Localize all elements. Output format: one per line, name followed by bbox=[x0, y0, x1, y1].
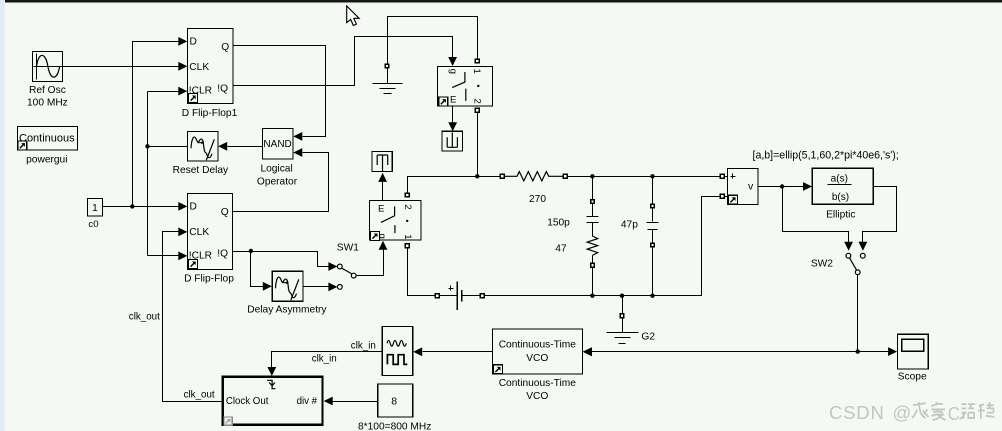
svg-text:270: 270 bbox=[529, 194, 546, 205]
Continuous-Time VCO block bbox=[493, 329, 583, 374]
svg-text:NAND: NAND bbox=[263, 139, 291, 150]
svg-text:[a,b]=ellip(5,1,60,2*pi*40e6,': [a,b]=ellip(5,1,60,2*pi*40e6,'s'); bbox=[753, 150, 899, 162]
label G2 bbox=[641, 332, 655, 343]
svg-text:Q: Q bbox=[221, 207, 229, 218]
svg-text:8*100=800 MHz: 8*100=800 MHz bbox=[358, 421, 431, 431]
svg-text:CLK: CLK bbox=[189, 227, 209, 238]
node V+ port square bbox=[720, 174, 727, 178]
svg-text:clk_in: clk_in bbox=[351, 340, 376, 351]
VCO pulse display block bbox=[382, 327, 413, 376]
top window border bbox=[5, 0, 1002, 3]
label clk_in lower bbox=[312, 354, 337, 365]
svg-text:D: D bbox=[190, 36, 197, 47]
wire VCO out to pulse display bbox=[413, 347, 492, 356]
label SW1 bbox=[337, 242, 359, 253]
Clock Out block bbox=[223, 377, 323, 425]
svg-text:D: D bbox=[190, 201, 197, 212]
top rail wire bbox=[408, 174, 721, 193]
svg-text:1: 1 bbox=[402, 234, 413, 239]
svg-text:v: v bbox=[748, 181, 754, 193]
svg-text:Delay Asymmetry: Delay Asymmetry bbox=[247, 305, 327, 316]
wire Reset Delay out to FF1 !CLR and FF2 !CLR bbox=[145, 87, 187, 261]
ground (top) bbox=[373, 64, 403, 93]
svg-text:1: 1 bbox=[92, 203, 98, 214]
svg-text:c0: c0 bbox=[88, 219, 98, 230]
label Reset Delay bbox=[173, 165, 229, 176]
resistor 47 bbox=[587, 236, 598, 296]
wire constant 8 to div input bbox=[324, 397, 378, 406]
wire SW2 out to VCO and Scope bbox=[583, 275, 897, 357]
node V- port square bbox=[720, 194, 727, 198]
svg-text:VCO: VCO bbox=[526, 391, 548, 402]
svg-text:Q: Q bbox=[221, 42, 229, 53]
wire NAND out to Reset Delay bbox=[218, 142, 262, 151]
svg-text:2: 2 bbox=[472, 98, 483, 103]
bottom rail wire bbox=[408, 197, 721, 298]
label 47p bbox=[621, 219, 638, 230]
wire Elliptic out to SW2 input2 bbox=[859, 187, 897, 251]
wire ground to breaker port 1 bbox=[388, 17, 478, 65]
annotation ellip command bbox=[753, 150, 899, 162]
wire VCO in from SW2 rail bbox=[583, 347, 592, 356]
sine source Ref Osc bbox=[33, 52, 63, 82]
svg-text:100 MHz: 100 MHz bbox=[27, 98, 68, 109]
svg-text:E: E bbox=[450, 94, 456, 105]
Delay Asymmetry block bbox=[272, 271, 303, 301]
label c0 bbox=[88, 219, 98, 230]
svg-text:VCO: VCO bbox=[526, 353, 548, 364]
svg-text:clk_out: clk_out bbox=[184, 390, 215, 401]
node SW1 port2 square bbox=[405, 193, 409, 197]
svg-text:CLK: CLK bbox=[189, 62, 209, 73]
label powergui bbox=[26, 155, 67, 166]
svg-text:D Flip-Flop: D Flip-Flop bbox=[184, 274, 234, 285]
wire SW1 E to pulse display bbox=[378, 173, 387, 201]
svg-text:150p: 150p bbox=[547, 218, 570, 229]
svg-text:b(s): b(s) bbox=[832, 192, 849, 203]
svg-text:a(s): a(s) bbox=[831, 174, 848, 185]
D Flip-Flop1 block U1 bbox=[188, 29, 234, 104]
D Flip-Flop block U2 bbox=[188, 194, 233, 270]
svg-text:1: 1 bbox=[471, 69, 482, 74]
wire constant to FF2 D and FF1 D bbox=[103, 37, 188, 211]
label 8*100=800 MHz bbox=[358, 421, 431, 431]
label Continuous-Time VCO bbox=[499, 378, 577, 402]
battery DC source bbox=[435, 282, 484, 310]
pulse display block (SW1) bbox=[372, 152, 392, 172]
label 150p bbox=[547, 218, 570, 229]
wire clk_out from Clock Out to FF2 CLK bbox=[163, 228, 223, 402]
label D Flip-Flop1 bbox=[182, 108, 238, 119]
svg-text:Continuous: Continuous bbox=[19, 133, 75, 145]
svg-text:C: C bbox=[948, 403, 960, 424]
svg-text:g: g bbox=[448, 69, 459, 74]
resistor 270 bbox=[500, 172, 567, 181]
svg-text:Ref Osc: Ref Osc bbox=[29, 85, 66, 96]
manual switch SW2 bbox=[846, 253, 865, 274]
left window strip bbox=[0, 0, 5, 431]
label Scope bbox=[898, 372, 927, 383]
wire v out branch to SW2 input1 bbox=[783, 187, 854, 251]
svg-text:E: E bbox=[378, 204, 384, 215]
label 270 bbox=[529, 194, 546, 205]
svg-text:Clock Out: Clock Out bbox=[226, 396, 269, 407]
label 47 bbox=[555, 244, 567, 255]
NAND Logical Operator block bbox=[263, 129, 294, 160]
svg-text:SW2: SW2 bbox=[811, 258, 833, 269]
wire Ref Osc to FF1 CLK bbox=[63, 62, 188, 71]
powergui block bbox=[18, 127, 78, 151]
breaker switch (top) bbox=[438, 67, 493, 107]
svg-text:!Q: !Q bbox=[217, 248, 228, 259]
svg-text:47p: 47p bbox=[621, 219, 638, 230]
manual switch (SW1 select) bbox=[337, 264, 356, 289]
svg-text:G2: G2 bbox=[641, 332, 655, 343]
svg-text:Scope: Scope bbox=[898, 372, 927, 383]
wire breaker port2 to top rail bbox=[475, 108, 479, 176]
svg-text:D Flip-Flop1: D Flip-Flop1 bbox=[182, 108, 238, 119]
watermark hanzi bbox=[912, 402, 994, 424]
svg-text:CSDN: CSDN bbox=[829, 402, 885, 423]
svg-text:@: @ bbox=[893, 402, 912, 423]
label Elliptic bbox=[826, 210, 855, 221]
svg-text:clk_out: clk_out bbox=[129, 312, 160, 323]
pulse display block (top) bbox=[442, 131, 463, 151]
svg-text:Continuous-Time: Continuous-Time bbox=[499, 340, 577, 351]
svg-text:clk_in: clk_in bbox=[312, 354, 337, 365]
wire FF1 Q to NAND in1 bbox=[234, 46, 326, 141]
constant c0 bbox=[88, 199, 103, 217]
breaker switch SW1 bbox=[370, 201, 422, 241]
wire FF1 !Q to breaker gate bbox=[234, 37, 458, 86]
node breaker port1 square bbox=[475, 59, 479, 63]
label clk_in upper bbox=[351, 340, 376, 351]
svg-text:Operator: Operator bbox=[257, 177, 298, 188]
svg-text:Continuous-Time: Continuous-Time bbox=[499, 378, 577, 389]
wire pulse display out to Clock Out trigger bbox=[267, 352, 382, 377]
svg-text:2: 2 bbox=[402, 204, 413, 209]
voltage measurement block bbox=[728, 169, 759, 205]
label D Flip-Flop bbox=[184, 274, 234, 285]
wire v out to Elliptic bbox=[759, 182, 813, 191]
svg-text:Logical: Logical bbox=[260, 164, 292, 175]
Scope block bbox=[898, 334, 929, 369]
svg-text:47: 47 bbox=[555, 244, 567, 255]
svg-text:SW1: SW1 bbox=[337, 242, 359, 253]
label Logical Operator bbox=[257, 164, 298, 188]
svg-text:8: 8 bbox=[391, 396, 397, 408]
svg-text:powergui: powergui bbox=[26, 155, 67, 166]
wire manual switch to SW1 g bbox=[357, 241, 388, 276]
Elliptic filter block bbox=[812, 168, 873, 204]
wire breaker E to pulse display bbox=[448, 107, 457, 132]
label clk_out lower bbox=[184, 390, 215, 401]
node SW1 port1 square bbox=[405, 244, 409, 248]
capacitor 47p bbox=[647, 177, 659, 296]
constant 8 bbox=[378, 384, 413, 417]
ground G2 bbox=[607, 296, 639, 344]
Reset Delay block bbox=[188, 132, 219, 162]
capacitor 150p bbox=[587, 177, 599, 237]
watermark CSDN bbox=[829, 402, 911, 423]
svg-text:div #: div # bbox=[297, 396, 318, 407]
label SW2 bbox=[811, 258, 833, 269]
svg-text:!Q: !Q bbox=[217, 83, 228, 94]
mouse cursor bbox=[347, 6, 359, 26]
svg-text:Elliptic: Elliptic bbox=[826, 210, 855, 221]
wire Delay Asymmetry out to manual switch bbox=[304, 283, 338, 292]
wire FF2 !Q to manual switch and Delay Asymmetry bbox=[233, 249, 338, 291]
label Delay Asymmetry bbox=[247, 305, 327, 316]
label clk_out upper bbox=[129, 312, 160, 323]
label Ref Osc 100 MHz bbox=[27, 85, 68, 109]
svg-text:Reset Delay: Reset Delay bbox=[173, 165, 229, 176]
wire FF2 Q to NAND in2 bbox=[233, 148, 329, 211]
